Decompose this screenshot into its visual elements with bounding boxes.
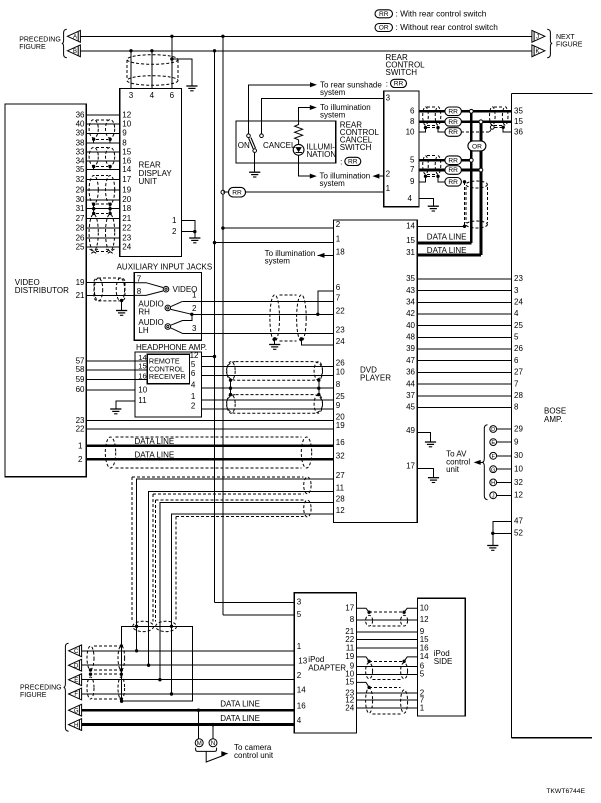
svg-text:A: A bbox=[73, 35, 77, 41]
svg-text:9: 9 bbox=[514, 438, 519, 447]
svg-text:C: C bbox=[74, 649, 79, 655]
unit iPod SIDE box bbox=[417, 598, 465, 716]
svg-text:28: 28 bbox=[514, 391, 523, 400]
wire VD 26 to RDU 23 bbox=[86, 237, 120, 239]
shield drain right to BOSE 36 bbox=[490, 125, 494, 129]
wire VD 27 to RDU 21 bbox=[86, 217, 120, 219]
svg-text:18: 18 bbox=[122, 204, 131, 213]
connector circle G to BOSE 10 bbox=[497, 468, 511, 470]
wire AUX 1 to DVD 7 bbox=[201, 300, 333, 302]
wire AUX pin1 row bbox=[182, 300, 201, 302]
wire DVD 42 to BOSE 4 bbox=[417, 313, 511, 315]
svg-text:H: H bbox=[74, 723, 78, 729]
svg-text:8: 8 bbox=[137, 287, 142, 296]
wire switch to ground bbox=[254, 152, 256, 171]
wire RCS 5 to bus v1 bbox=[419, 159, 471, 162]
wire RCS 7 to bus v2 bbox=[419, 169, 481, 172]
svg-text:52: 52 bbox=[514, 529, 523, 538]
wire bus vB to iPod 3 bbox=[214, 602, 216, 604]
connector circle J to BOSE 12 bbox=[497, 494, 511, 496]
svg-text:G: G bbox=[74, 708, 79, 714]
bubble OR on buses bbox=[468, 141, 486, 151]
jack VIDEO funnel bbox=[134, 283, 163, 288]
svg-text:DATA LINE: DATA LINE bbox=[135, 437, 175, 446]
shield tube DVD 27-11 bbox=[132, 476, 304, 478]
svg-text:16: 16 bbox=[138, 371, 146, 380]
svg-text:DATA LINE: DATA LINE bbox=[220, 700, 260, 709]
svg-text:CANCEL: CANCEL bbox=[263, 141, 296, 150]
wire DVD 40 to BOSE 25 bbox=[417, 325, 511, 327]
bracket under M N bbox=[196, 748, 217, 752]
svg-text:2: 2 bbox=[336, 220, 341, 229]
svg-text:FIGURE: FIGURE bbox=[556, 42, 583, 49]
svg-text:57: 57 bbox=[76, 356, 85, 365]
ground BOSE 47-52 bbox=[487, 545, 498, 547]
arrow to camera control unit bbox=[206, 751, 224, 762]
connector circle N bbox=[209, 739, 217, 747]
svg-text:39: 39 bbox=[406, 344, 415, 353]
shield DATA LINE left cable bbox=[105, 437, 115, 468]
svg-text:2: 2 bbox=[297, 671, 302, 680]
svg-text:PRECEDING: PRECEDING bbox=[20, 684, 62, 691]
svg-text:12: 12 bbox=[190, 351, 199, 360]
svg-text:6: 6 bbox=[336, 283, 341, 292]
wire DVD 43 to BOSE 3 bbox=[417, 290, 511, 292]
twisted pair shield VD-RDU group3 bbox=[89, 176, 98, 204]
connector triangle B preceding figure bbox=[67, 45, 80, 57]
svg-text:RR: RR bbox=[448, 129, 458, 136]
svg-text:control unit: control unit bbox=[234, 751, 274, 760]
unit REAR CONTROL CANCEL SWITCH box bbox=[236, 121, 336, 163]
unit REMOTE CONTROL RECEIVER box bbox=[147, 354, 189, 384]
wire RDU pin4 drop bbox=[151, 51, 153, 89]
wire RCS 10 to BOSE 36 bbox=[419, 128, 426, 132]
svg-text:10: 10 bbox=[514, 465, 523, 474]
svg-text:system: system bbox=[320, 179, 346, 188]
svg-text:6: 6 bbox=[514, 356, 519, 365]
connector circle E to BOSE 9 bbox=[497, 441, 511, 443]
svg-text:OR: OR bbox=[379, 25, 389, 32]
svg-text:system: system bbox=[320, 88, 346, 97]
svg-text:11: 11 bbox=[138, 396, 147, 405]
wire VD 38 to RDU 8 bbox=[86, 142, 120, 144]
svg-text:4: 4 bbox=[150, 91, 155, 100]
wire D to iPod adapter 13 bbox=[82, 664, 295, 666]
ground RDU shield bbox=[186, 85, 197, 87]
svg-text:22: 22 bbox=[336, 306, 345, 315]
svg-text:G: G bbox=[491, 467, 495, 473]
svg-text:26: 26 bbox=[514, 344, 523, 353]
shield cables preceding bottom bbox=[87, 646, 94, 670]
wire VD 34 to RDU 16 bbox=[86, 160, 120, 162]
svg-text:3: 3 bbox=[129, 91, 134, 100]
svg-text:15: 15 bbox=[514, 117, 523, 126]
svg-text:28: 28 bbox=[76, 224, 85, 233]
wire DATA LINE G to iPod adapter 16 bbox=[82, 709, 295, 712]
svg-text:4: 4 bbox=[297, 716, 302, 725]
shield drain left to ground bbox=[273, 337, 276, 340]
svg-text:24: 24 bbox=[336, 337, 345, 346]
wire VD 35 to RDU 14 bbox=[86, 169, 120, 171]
svg-text:19: 19 bbox=[336, 421, 345, 430]
svg-text:34: 34 bbox=[406, 298, 415, 307]
wire bus v1 thick bbox=[470, 111, 473, 243]
shield VD-AUX cable bbox=[94, 278, 125, 301]
svg-text:AMP.: AMP. bbox=[544, 415, 563, 424]
connector triangle A preceding figure bbox=[67, 30, 80, 42]
wire DVD 35 to BOSE 23 bbox=[417, 278, 511, 280]
svg-text:RR: RR bbox=[348, 159, 358, 166]
wire iPod 10 to side 5 bbox=[357, 674, 418, 676]
svg-text:40: 40 bbox=[76, 120, 85, 129]
wire DATA LINE v1 to DVD 15 bbox=[417, 241, 471, 244]
svg-text:25: 25 bbox=[76, 243, 85, 252]
wire iPod 12 to side 7 bbox=[357, 699, 418, 701]
svg-text:9: 9 bbox=[410, 177, 415, 186]
svg-text:SIDE: SIDE bbox=[434, 657, 453, 666]
connector triangle J next figure bbox=[532, 30, 545, 42]
shield drain RCS 6-8 bbox=[424, 126, 427, 129]
wire illumination branch upper bbox=[299, 108, 310, 122]
twisted pair shield VD-RDU group1 bbox=[89, 120, 98, 138]
wire iPod 24 to side 1 bbox=[357, 707, 418, 709]
svg-text:30: 30 bbox=[514, 451, 523, 460]
svg-text:31: 31 bbox=[76, 204, 85, 213]
connector triangle D preceding figure bottom bbox=[69, 659, 82, 671]
svg-text:J: J bbox=[536, 35, 539, 41]
shield pair iPod 17-8 bbox=[366, 615, 373, 626]
wire G dot to M bbox=[198, 710, 200, 739]
svg-text:9: 9 bbox=[336, 401, 341, 410]
wire VD 33 to RDU 15 bbox=[86, 151, 120, 153]
svg-text:1: 1 bbox=[386, 184, 391, 193]
shield drain right to DVD 24 bbox=[300, 337, 303, 340]
brace preceding figure bottom bbox=[64, 643, 69, 731]
svg-text:10: 10 bbox=[420, 604, 429, 613]
connector triangle E preceding figure bottom bbox=[69, 674, 82, 686]
wire DVD 12 L-run bbox=[172, 514, 334, 694]
svg-text:DATA LINE: DATA LINE bbox=[135, 450, 175, 459]
connector circle M bbox=[195, 739, 203, 747]
svg-text:17: 17 bbox=[406, 462, 415, 471]
svg-text:UNIT: UNIT bbox=[139, 177, 158, 186]
ground RCCS switch bbox=[249, 171, 260, 173]
svg-text:RECEIVER: RECEIVER bbox=[149, 372, 186, 381]
unit HEADPHONE AMP box bbox=[135, 352, 201, 417]
svg-text:15: 15 bbox=[406, 236, 415, 245]
svg-text:12: 12 bbox=[122, 111, 131, 120]
wire F to iPod adapter 14 bbox=[82, 693, 295, 695]
wire AUX 3 to DVD 23 bbox=[201, 332, 333, 334]
svg-text:39: 39 bbox=[76, 129, 85, 138]
svg-text:5: 5 bbox=[191, 360, 196, 369]
ground RDU pins 1-2 bbox=[189, 237, 200, 239]
svg-text:FIGURE: FIGURE bbox=[19, 44, 46, 51]
svg-text:2: 2 bbox=[78, 455, 83, 464]
svg-text:RH: RH bbox=[138, 308, 150, 317]
unit DVD PLAYER box bbox=[333, 220, 417, 523]
brace preceding figure top bbox=[62, 29, 67, 58]
bubble RR row5 bbox=[445, 156, 462, 165]
svg-text:30: 30 bbox=[76, 195, 85, 204]
svg-text:RR: RR bbox=[448, 109, 458, 116]
wire DVD 44 to BOSE 7 bbox=[417, 383, 511, 385]
unit BOSE AMP box (open right side) bbox=[512, 92, 593, 94]
wire DATA LINE v2 to DVD 31 bbox=[417, 253, 481, 256]
bubble RR row6 bbox=[445, 107, 462, 116]
svg-text:13: 13 bbox=[298, 657, 307, 666]
wire DVD 49 to ground bbox=[417, 433, 430, 442]
shield RCS 6-8 left bbox=[427, 106, 437, 108]
wire VD 39 to RDU 9 bbox=[86, 132, 120, 134]
wire DVD 17 to ground bbox=[417, 468, 433, 477]
svg-text:27: 27 bbox=[76, 214, 85, 223]
svg-text::: : bbox=[386, 79, 388, 88]
svg-text:F: F bbox=[491, 454, 495, 460]
svg-text:31: 31 bbox=[406, 248, 415, 257]
unit iPod ADAPTER box bbox=[294, 593, 356, 733]
bubble RR row8 bbox=[445, 118, 462, 127]
svg-text:10: 10 bbox=[138, 385, 147, 394]
svg-text:RR: RR bbox=[448, 119, 458, 126]
svg-text:15: 15 bbox=[345, 678, 354, 687]
switch contact CANCEL bbox=[260, 134, 264, 138]
svg-text:2: 2 bbox=[191, 401, 196, 410]
wire AUX pin3 row bbox=[183, 332, 202, 334]
shield RCS-BOSE right bbox=[494, 106, 504, 108]
svg-text:33: 33 bbox=[76, 148, 85, 157]
svg-text:2: 2 bbox=[386, 169, 391, 178]
wire bus vB from line B bbox=[213, 49, 216, 52]
svg-text:3: 3 bbox=[514, 286, 519, 295]
svg-text:19: 19 bbox=[345, 652, 354, 661]
svg-text:RR: RR bbox=[448, 167, 458, 174]
svg-text:H: H bbox=[491, 481, 495, 487]
wire RDU pin3 drop bbox=[130, 51, 132, 89]
svg-text:SWITCH: SWITCH bbox=[340, 143, 372, 152]
unit AUXILIARY INPUT JACKS box bbox=[134, 273, 201, 341]
connector circle F to BOSE 30 bbox=[497, 455, 511, 457]
svg-text:15: 15 bbox=[122, 148, 131, 157]
svg-text:35: 35 bbox=[76, 165, 85, 174]
legend RR bubble: with rear control switch bbox=[375, 10, 393, 18]
svg-text:23: 23 bbox=[514, 274, 523, 283]
bubble RR row9 bbox=[445, 178, 462, 187]
shield drain rectangle bottom left bbox=[122, 626, 193, 701]
svg-text:2: 2 bbox=[172, 227, 177, 236]
wire DVD 48 to BOSE 5 bbox=[417, 336, 511, 338]
svg-text:36: 36 bbox=[76, 111, 85, 120]
svg-text:5: 5 bbox=[297, 610, 302, 619]
wire RDU pin6 drop bbox=[171, 36, 173, 88]
svg-text:24: 24 bbox=[122, 243, 131, 252]
wire VD 32 to RDU 17 bbox=[86, 179, 120, 181]
svg-text:E: E bbox=[74, 678, 78, 684]
svg-text:24: 24 bbox=[345, 703, 354, 712]
svg-text:4: 4 bbox=[191, 381, 196, 390]
svg-text:8: 8 bbox=[514, 403, 519, 412]
svg-text:RR: RR bbox=[448, 157, 458, 164]
wire iPod 21 to side 9 bbox=[357, 631, 418, 633]
wire iPod 22 to side 15 bbox=[357, 639, 418, 641]
svg-text:J: J bbox=[492, 493, 495, 499]
wire RCS 9 to DVD 14 bbox=[419, 176, 426, 182]
svg-text:LH: LH bbox=[138, 326, 148, 335]
svg-text:37: 37 bbox=[406, 391, 415, 400]
svg-text:1: 1 bbox=[172, 216, 177, 225]
svg-text:ON: ON bbox=[238, 141, 250, 150]
wire iPod 17 to side 10 bbox=[357, 608, 370, 612]
wire VD 36 to RDU 12 bbox=[86, 114, 120, 116]
svg-text:60: 60 bbox=[76, 385, 85, 394]
svg-text:1: 1 bbox=[336, 235, 341, 244]
svg-text:10: 10 bbox=[406, 127, 415, 136]
svg-text:27: 27 bbox=[514, 368, 523, 377]
svg-text:40: 40 bbox=[406, 321, 415, 330]
svg-text:1: 1 bbox=[420, 703, 425, 712]
svg-text:25: 25 bbox=[514, 321, 523, 330]
wire DVD 18 to illumination arrow bbox=[318, 254, 334, 256]
bubble RR row10 bbox=[445, 128, 462, 137]
svg-text:21: 21 bbox=[76, 291, 85, 300]
wire VD 29 to RDU 19 bbox=[86, 189, 120, 191]
svg-text:16: 16 bbox=[297, 702, 306, 711]
svg-text:23: 23 bbox=[336, 325, 345, 334]
svg-text:5: 5 bbox=[514, 333, 519, 342]
svg-text:14: 14 bbox=[138, 353, 146, 362]
svg-text:: Without rear control switch: : Without rear control switch bbox=[396, 22, 499, 32]
shield drain dots HP-DVD right bbox=[317, 379, 320, 382]
connector triangle K next figure bbox=[532, 45, 545, 57]
wire VD 40 to RDU 10 bbox=[86, 123, 120, 125]
svg-text:10: 10 bbox=[336, 367, 345, 376]
svg-text:14: 14 bbox=[122, 165, 131, 174]
svg-text:11: 11 bbox=[346, 643, 355, 652]
svg-text:14: 14 bbox=[420, 652, 429, 661]
junction circles on v1 v2 bbox=[469, 109, 473, 113]
wire line-B preceding-to-next figure bbox=[81, 50, 533, 52]
svg-text:8: 8 bbox=[350, 615, 355, 624]
svg-text:16: 16 bbox=[420, 643, 429, 652]
svg-text:D: D bbox=[491, 427, 495, 433]
svg-text:RR: RR bbox=[379, 11, 389, 18]
svg-text:system: system bbox=[265, 257, 291, 266]
svg-text:22: 22 bbox=[76, 425, 85, 434]
svg-text:32: 32 bbox=[76, 175, 85, 184]
wire bus vA from line A bbox=[221, 35, 224, 38]
connector triangle F preceding figure bottom bbox=[69, 688, 82, 700]
bubble RR row7 bbox=[445, 166, 462, 175]
svg-text:23: 23 bbox=[122, 233, 131, 242]
ground DVD 49 bbox=[425, 441, 436, 443]
svg-text:1: 1 bbox=[78, 441, 83, 450]
svg-text:8: 8 bbox=[336, 380, 341, 389]
svg-text:17: 17 bbox=[122, 175, 131, 184]
svg-text:B: B bbox=[73, 49, 77, 55]
shield tube DVD 28-12 bbox=[155, 499, 303, 501]
wire AUX jack common bbox=[183, 314, 192, 320]
svg-text:38: 38 bbox=[76, 139, 85, 148]
svg-text:45: 45 bbox=[406, 403, 415, 412]
svg-text:7: 7 bbox=[410, 165, 415, 174]
svg-text:29: 29 bbox=[514, 424, 523, 433]
svg-text:17: 17 bbox=[345, 604, 354, 613]
shield drain RCS 5-7 bbox=[424, 175, 427, 178]
wire DVD 47 to BOSE 6 bbox=[417, 360, 511, 362]
wire lamp to illumination lower bbox=[299, 155, 310, 176]
wire DVD 37 to BOSE 28 bbox=[417, 395, 511, 397]
wire C to iPod adapter 1 bbox=[82, 650, 295, 652]
connector triangle H preceding figure bottom bbox=[69, 719, 82, 731]
svg-text:RR: RR bbox=[394, 81, 404, 88]
svg-text:NEXT: NEXT bbox=[556, 34, 575, 41]
wire DVD 36 to BOSE 27 bbox=[417, 371, 511, 373]
wire bus vB to DVD 1 bbox=[213, 241, 216, 244]
svg-text:M: M bbox=[197, 740, 202, 747]
shield cable RCS9-DVD14 bbox=[466, 181, 487, 188]
shield drain dots HP-DVD left bbox=[229, 379, 232, 382]
svg-text:28: 28 bbox=[336, 495, 345, 504]
svg-text:OR: OR bbox=[472, 144, 482, 151]
svg-text:PRECEDING: PRECEDING bbox=[19, 36, 61, 43]
svg-text:22: 22 bbox=[122, 224, 131, 233]
svg-text:unit: unit bbox=[446, 465, 460, 474]
svg-text:N: N bbox=[211, 740, 215, 747]
svg-text:DATA LINE: DATA LINE bbox=[427, 246, 467, 255]
svg-text:2: 2 bbox=[192, 304, 197, 313]
wire DVD 45 to BOSE 8 bbox=[417, 407, 511, 409]
ground RCS pin 4 bbox=[428, 205, 439, 207]
twisted pair shield VD-RDU group2 bbox=[89, 147, 98, 165]
svg-text:RR: RR bbox=[232, 189, 242, 196]
shield pair iPod 9-10 bbox=[366, 663, 373, 679]
wire iPod 11 to side 16 bbox=[357, 647, 418, 649]
switch contact ON bbox=[247, 134, 251, 138]
svg-text:3: 3 bbox=[386, 94, 391, 103]
svg-text:3: 3 bbox=[192, 324, 197, 333]
svg-text:7: 7 bbox=[514, 379, 519, 388]
shield cable HP-DVD upper bbox=[227, 362, 323, 381]
svg-text:20: 20 bbox=[122, 195, 131, 204]
svg-text:42: 42 bbox=[406, 309, 415, 318]
wire CANCEL to RCS pin 3 bbox=[262, 98, 384, 134]
wire iPod 23 to side 2 bbox=[357, 692, 418, 694]
shield cable AUX-DVD bbox=[270, 295, 280, 341]
wire AUX pin2 row bbox=[192, 313, 202, 315]
svg-text:36: 36 bbox=[514, 127, 523, 136]
svg-text:14: 14 bbox=[297, 685, 306, 694]
switch lever bbox=[249, 138, 254, 149]
svg-text:FIGURE: FIGURE bbox=[20, 692, 47, 699]
svg-text:system: system bbox=[320, 111, 346, 120]
wire iPod 15 to shield drain bbox=[357, 682, 370, 687]
wire E to iPod adapter 2 bbox=[82, 679, 295, 681]
svg-text:: With rear control switch: : With rear control switch bbox=[396, 8, 487, 18]
svg-text:DATA LINE: DATA LINE bbox=[427, 232, 467, 241]
svg-text:1: 1 bbox=[297, 642, 302, 651]
wire bus vA to iPod 5 bbox=[223, 614, 294, 616]
wire DVD 34 to BOSE 24 bbox=[417, 301, 511, 303]
unit REAR DISPLAY UNIT box bbox=[120, 89, 182, 257]
svg-text:58: 58 bbox=[76, 365, 85, 374]
svg-text:19: 19 bbox=[122, 185, 131, 194]
svg-text:12: 12 bbox=[336, 506, 345, 515]
svg-text:DISTRIBUTOR: DISTRIBUTOR bbox=[15, 286, 69, 295]
svg-text:32: 32 bbox=[514, 478, 523, 487]
shield drain dot and ground VD-AUX bbox=[120, 299, 123, 302]
svg-text:5: 5 bbox=[410, 155, 415, 164]
wire iPod 19 to side 14 bbox=[357, 657, 370, 661]
